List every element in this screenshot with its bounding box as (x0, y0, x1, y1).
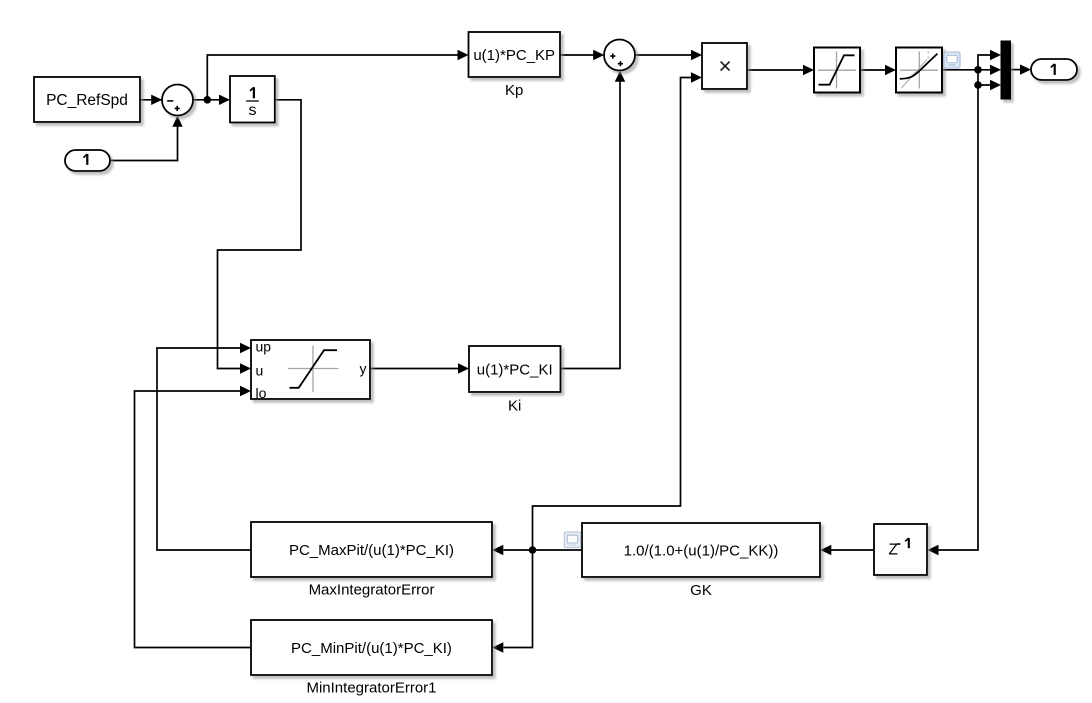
logging badge on rate limiter (944, 52, 960, 68)
rate limiter block (896, 48, 942, 93)
wire SatDyn y to Ki (370, 368, 460, 370)
wire Sum1 to Integrator (193, 99, 220, 101)
arrow into Mux in2 (990, 65, 1001, 75)
wire node to Kp (top run) (207, 55, 458, 100)
logging badge on GK (564, 532, 580, 548)
wire node down to Mux in3 (978, 70, 991, 85)
svg-text:y: y (360, 361, 367, 377)
saturation block (814, 48, 860, 93)
wire GK out to MaxIntegratorError (504, 549, 583, 551)
arrow into Sum1 (151, 95, 162, 105)
wire MaxIntegratorError to SatDyn up (157, 348, 251, 550)
svg-text:GK: GK (690, 582, 712, 599)
wire Ki up to Sum2 bottom (561, 72, 621, 369)
wire Sum2 to Product in1 (635, 54, 692, 56)
fcn block MaxIntegratorError (251, 522, 492, 599)
sum Sum2 (604, 40, 635, 71)
svg-text:PC_RefSpd: PC_RefSpd (46, 92, 128, 109)
svg-text:u(1)*PC_KI: u(1)*PC_KI (477, 361, 553, 378)
gain block Ki (469, 346, 561, 414)
svg-text:u: u (256, 363, 264, 379)
arrow into MaxIntegratorError (492, 545, 503, 555)
constant PC_RefSpd (34, 77, 140, 122)
arrow into Integrator (219, 95, 230, 105)
svg-text:MaxIntegratorError: MaxIntegratorError (309, 582, 435, 599)
product block (702, 43, 747, 89)
arrow into Product in1 (691, 50, 702, 60)
wire PC_RefSpd to Sum1 (140, 99, 163, 101)
svg-text:MinIntegratorError1: MinIntegratorError1 (306, 680, 436, 697)
fcn block MinIntegratorError1 (251, 620, 492, 697)
arrow into SatDyn u (240, 363, 251, 373)
wire node down to UnitDelay (938, 85, 978, 550)
outport 1 (1031, 59, 1077, 80)
svg-text:u(1)*PC_KP: u(1)*PC_KP (473, 47, 555, 64)
arrow into SatDyn up (240, 343, 251, 353)
svg-text:Z: Z (889, 542, 898, 559)
saturation dynamic block (251, 339, 370, 401)
arrow into UnitDelay (928, 545, 939, 555)
svg-text:up: up (256, 339, 272, 355)
wire Inport1 to Sum1 bottom (110, 117, 178, 161)
arrow into RateLimiter (885, 65, 896, 75)
wire UnitDelay to GK (831, 549, 874, 551)
sum Sum1 (162, 85, 193, 116)
arrow into Sum1 bottom (172, 116, 182, 127)
svg-text:1.0/(1.0+(u(1)/PC_KK)): 1.0/(1.0+(u(1)/PC_KK)) (624, 542, 779, 559)
arrow into Mux in3 (990, 80, 1001, 90)
arrow into Mux in1 (990, 50, 1001, 60)
arrow into Outport1 (1020, 64, 1031, 74)
fcn block GK (582, 523, 820, 599)
junction node mux low (974, 81, 982, 89)
arrow into Kp (458, 50, 469, 60)
junction node GK out (529, 546, 537, 554)
wire node down to MinIntegratorError1 (504, 550, 533, 648)
junction node after Sum1 (204, 96, 212, 104)
arrow into Sum2 bottom (615, 71, 625, 82)
ARROWHEADS (151, 50, 1031, 653)
wire Integrator down-left to SatDyn u (218, 100, 302, 369)
svg-text:PC_MaxPit/(u(1)*PC_KI): PC_MaxPit/(u(1)*PC_KI) (289, 542, 454, 559)
arrow into MinIntegratorError1 (492, 642, 503, 652)
svg-text:Ki: Ki (508, 397, 521, 414)
wire Saturation to RateLimiter (860, 69, 886, 71)
wire node up to Mux in1 (978, 55, 991, 70)
integrator 1/s (230, 76, 275, 123)
wire Kp to Sum2 (560, 54, 594, 56)
svg-text:Kp: Kp (505, 82, 523, 99)
gain block Kp (469, 32, 561, 99)
svg-text:PC_MinPit/(u(1)*PC_KI): PC_MinPit/(u(1)*PC_KI) (291, 640, 452, 657)
wire Product to Saturation (747, 69, 805, 71)
arrow into GK (820, 545, 831, 555)
svg-text:lo: lo (256, 385, 267, 401)
arrow into Ki (458, 363, 469, 373)
arrow into Sum2 (593, 50, 604, 60)
arrow into SatDyn lo (240, 386, 251, 396)
arrow into Product in2 (691, 72, 702, 82)
inport 1 (65, 150, 110, 171)
wire MinIntegratorError1 to SatDyn lo (135, 391, 252, 648)
svg-text:s: s (249, 102, 257, 119)
unit delay block Z^-1 (874, 524, 927, 575)
arrow into Saturation (803, 65, 814, 75)
junction node mux mid (974, 66, 982, 74)
mux block (1001, 41, 1011, 99)
wire Mux to Outport1 (1011, 69, 1021, 71)
wire RateLimiter to Mux in2 (942, 69, 991, 71)
wire node up to Product in2 (533, 78, 693, 551)
